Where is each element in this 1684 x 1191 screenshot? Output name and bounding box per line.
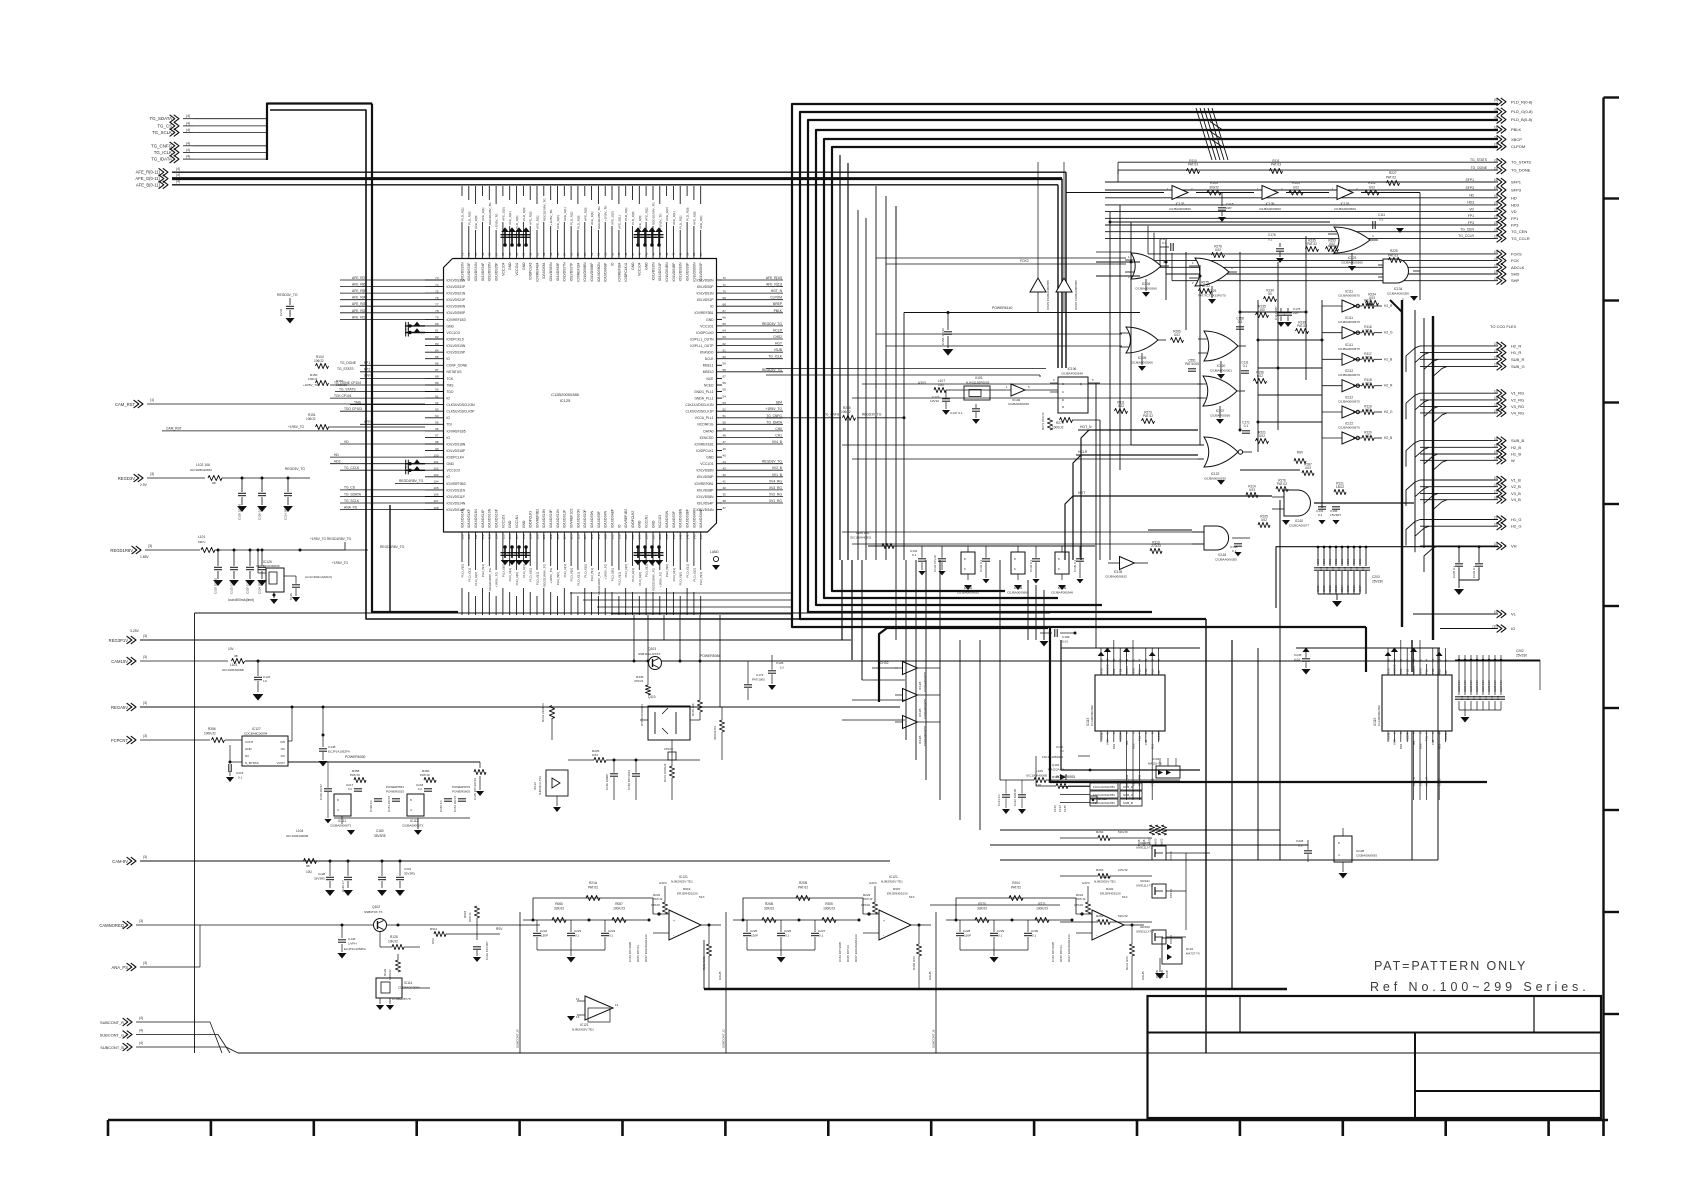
svg-text:IO/VREF1B3: IO/VREF1B3 [447, 318, 466, 322]
svg-text:2.9V: 2.9V [140, 483, 148, 487]
pin 85 IC125 left [425, 355, 450, 361]
svg-text:MA727-TX: MA727-TX [1186, 952, 1200, 956]
svg-text:A3V3: A3V3 [659, 881, 667, 885]
svg-text:CAM_RST: CAM_RST [166, 427, 182, 431]
op-amp IC121 spare [567, 996, 619, 1032]
svg-text:CLK5/LVDSCLK5P: CLK5/LVDSCLK5P [447, 410, 476, 414]
pin 66 IC125 top [501, 186, 505, 276]
svg-text:IO/LVDS34N: IO/LVDS34N [474, 262, 478, 281]
svg-text:10U: 10U [1334, 559, 1338, 564]
or-gate IC123 [1328, 227, 1378, 271]
svg-text:R263: R263 [1096, 868, 1104, 872]
svg-text:80: 80 [435, 322, 439, 326]
svg-text:C142 1M41B: C142 1M41B [1013, 789, 1017, 806]
buffer IC111 [1322, 316, 1393, 339]
capacitor C153 16V10 [941, 313, 953, 356]
resistor R225 0/J3 [568, 749, 700, 763]
svg-text:R264: R264 [1096, 914, 1104, 918]
buffer IC111 [1322, 290, 1393, 313]
connector V2_RG [1420, 396, 1524, 404]
pin 52 IC125 right [710, 302, 783, 308]
pin 93 IC125 left [425, 407, 475, 413]
wire trunk x366 [270, 110, 1206, 619]
svg-text:IO: IO [447, 436, 451, 440]
svg-text:NJM2902V-TE1: NJM2902V-TE1 [671, 880, 693, 884]
and-gate IC118 [1192, 526, 1250, 562]
wire vertical x1280 [1279, 500, 1281, 860]
transistor pair Q110 [640, 695, 700, 740]
svg-text:PAT/J2: PAT/J2 [1143, 414, 1153, 418]
capacitor C132 16V10 [933, 546, 946, 575]
part C111b 0.1 [1241, 361, 1249, 374]
pin 142 IC125 bottom [686, 508, 690, 615]
svg-text:IO/LVDS63P: IO/LVDS63P [556, 262, 560, 281]
svg-text:0.1: 0.1 [1268, 238, 1273, 242]
svg-text:+1R5V_TG: +1R5V_TG [549, 567, 553, 583]
connector TG_STATS [1118, 158, 1531, 174]
pin 39 IC125 top [685, 186, 689, 281]
pin 50 IC125 right [706, 316, 726, 322]
svg-text:IO/LVDS93N: IO/LVDS93N [679, 262, 683, 281]
svg-text:IO/LVDS4P: IO/LVDS4P [697, 501, 715, 505]
svg-text:IC112: IC112 [410, 819, 418, 823]
svg-text:42: 42 [665, 252, 669, 256]
connector VD [1105, 207, 1517, 215]
svg-text:1/VFH: 1/VFH [348, 942, 357, 946]
pin 76 IC125 left [425, 296, 466, 302]
svg-text:NJM431U-TE1: NJM431U-TE1 [538, 775, 542, 795]
svg-text:IO/LVDS6BN: IO/LVDS6BN [583, 262, 587, 282]
pin 110 IC125 bottom [467, 508, 471, 615]
svg-text:TL1: TL1 [1425, 736, 1429, 741]
svg-text:R915 PAT/J3: R915 PAT/J3 [636, 945, 640, 962]
svg-text:Iccnt=300mA(MAX): Iccnt=300mA(MAX) [305, 575, 332, 579]
svg-text:H2_G: H2_G [1511, 524, 1521, 529]
svg-text:53: 53 [590, 252, 594, 256]
svg-text:33K/J3: 33K/J3 [977, 907, 987, 911]
svg-text:141: 141 [679, 534, 683, 539]
svg-text:(3): (3) [143, 961, 147, 965]
svg-text:VCC1O1: VCC1O1 [700, 462, 713, 466]
svg-text:AFE_R(0-11): AFE_R(0-11) [136, 170, 161, 175]
wire trunk bus [792, 104, 1498, 627]
svg-text:TG_DONE: TG_DONE [1471, 166, 1488, 170]
pin 83 IC125 left [425, 342, 466, 348]
resistor R273 PAT/J3 [1041, 412, 1053, 430]
pin 36 IC125 right [686, 407, 783, 413]
svg-text:F1K1H1050003: F1K1H1050003 [1042, 755, 1063, 759]
svg-text:46: 46 [723, 447, 727, 451]
or-gate IC107 [1197, 376, 1245, 424]
svg-text:132: 132 [617, 534, 621, 539]
svg-text:L102 10U: L102 10U [196, 463, 211, 467]
connector ADCLK [1160, 239, 1525, 271]
pin 118 IC125 bottom [522, 520, 526, 615]
svg-text:GND: GND [447, 462, 455, 466]
svg-text:C150 PAT/3591: C150 PAT/3591 [627, 769, 631, 790]
resistor R235 [1306, 239, 1319, 252]
svg-text:PLD_B[1]: PLD_B[1] [481, 564, 485, 577]
node CHS2 buffers [872, 661, 898, 668]
svg-text:C0JBA0000669: C0JBA0000669 [1259, 207, 1281, 211]
connector TG_ICLK [154, 148, 267, 156]
svg-text:IC12B: IC12B [918, 682, 922, 690]
svg-text:(4): (4) [139, 1029, 143, 1033]
svg-text:PLD_R[0]: PLD_R[0] [570, 568, 574, 582]
svg-text:C227: C227 [818, 929, 826, 933]
svg-text:PLD_B[1]: PLD_B[1] [699, 572, 703, 585]
pin 130 IC125 bottom [604, 510, 608, 615]
svg-text:TCK: TCK [447, 377, 454, 381]
svg-text:MDB2B: MDB2B [1393, 664, 1397, 674]
svg-text:IC110: IC110 [1295, 519, 1303, 523]
resistor R279 1000/J2 [1052, 417, 1100, 429]
svg-text:H1_R: H1_R [1511, 350, 1521, 355]
svg-text:PAT/J2: PAT/J2 [1076, 897, 1086, 901]
connector FCKS [1148, 226, 1522, 258]
svg-text:TG_STATS: TG_STATS [1511, 160, 1531, 165]
svg-text:C163 PAT/1005: C163 PAT/1005 [838, 941, 842, 962]
svg-text:14: 14 [615, 1003, 619, 1007]
svg-text:IC105 C0JBA0000655: IC105 C0JBA0000655 [1046, 280, 1050, 310]
svg-text:PAT/J2: PAT/J2 [588, 886, 598, 890]
svg-text:14: 14 [1425, 659, 1429, 662]
svg-text:0/J2: 0/J2 [1261, 518, 1267, 522]
svg-text:TG_STATS: TG_STATS [1470, 158, 1488, 162]
svg-text:HCLR: HCLR [773, 329, 783, 333]
transistor Q103 SSB116A-RSTX [633, 647, 682, 670]
diode D101 MA727-TX [1155, 938, 1200, 978]
svg-text:C147 0.1: C147 0.1 [950, 411, 963, 415]
svg-text:TDO: TDO [447, 390, 454, 394]
svg-text:TG_ICLK: TG_ICLK [768, 355, 783, 359]
pin 61 IC125 top [535, 186, 539, 282]
svg-text:AFE_R[0]: AFE_R[0] [692, 211, 696, 225]
svg-text:SUBCONT_G: SUBCONT_G [100, 1033, 124, 1038]
svg-text:51X: 51X [699, 895, 705, 899]
svg-text:FP3: FP3 [1468, 221, 1474, 225]
pin 26 IC125 right [697, 473, 783, 479]
svg-text:C128: C128 [318, 872, 326, 876]
svg-text:REGD3V_TG: REGD3V_TG [762, 322, 782, 326]
connector CAM-9V [112, 829, 890, 874]
svg-text:GND: GND [645, 262, 649, 270]
capacitor C148 ECJP1A105ZFA [319, 707, 350, 767]
svg-text:TG_SCLK: TG_SCLK [344, 499, 360, 503]
svg-text:84: 84 [435, 348, 439, 352]
svg-text:PLD_B[1]: PLD_B[1] [536, 572, 540, 585]
svg-text:A3V3: A3V3 [1082, 881, 1090, 885]
svg-text:NC: NC [1157, 670, 1161, 674]
svg-text:D103: D103 [1152, 757, 1160, 761]
svg-text:CHS2: CHS2 [880, 661, 889, 665]
svg-text:GNDA_PLL1: GNDA_PLL1 [694, 397, 713, 401]
svg-text:AFE_R[0]: AFE_R[0] [529, 211, 533, 225]
svg-text:R262: R262 [1096, 830, 1104, 834]
svg-text:PLD_R[0]: PLD_R[0] [515, 572, 519, 586]
svg-text:133: 133 [624, 534, 628, 539]
pin 53 IC125 right [697, 296, 783, 302]
svg-text:0/J2: 0/J2 [1293, 186, 1299, 190]
svg-text:91: 91 [435, 394, 439, 398]
resistors R262-R264 net to CP [1186, 853, 1210, 930]
pin 69 IC125 top [481, 186, 485, 281]
svg-text:86: 86 [435, 362, 439, 366]
svg-text:PAT/J3: PAT/J3 [1388, 254, 1398, 258]
svg-text:IO/LVDS33N: IO/LVDS33N [460, 262, 464, 281]
svg-text:C146: C146 [348, 937, 356, 941]
svg-text:0/J3: 0/J3 [1305, 466, 1311, 470]
svg-text:F1K1H1044A7B3: F1K1H1044A7B3 [1093, 801, 1115, 805]
connector CAM_RST [115, 398, 425, 408]
svg-text:50: 50 [610, 252, 614, 256]
svg-text:IC116: IC116 [533, 782, 537, 790]
svg-text:C192: C192 [1328, 585, 1332, 592]
svg-text:C1A900002099: C1A900002099 [1377, 705, 1381, 726]
svg-text:C194: C194 [1340, 585, 1344, 592]
pin 28 IC125 right [700, 460, 783, 466]
connector FCPCNT [111, 727, 242, 744]
svg-text:68: 68 [723, 302, 727, 306]
svg-text:CP108: CP108 [664, 747, 673, 751]
svg-text:35V3R5: 35V3R5 [404, 872, 415, 876]
svg-text:PAT/J2: PAT/J2 [1011, 886, 1021, 890]
svg-text:IO/LVDS64: IO/LVDS64 [542, 262, 546, 279]
inverter IC103 [1332, 186, 1358, 212]
svg-text:R26B: R26B [765, 902, 773, 906]
pin 34 IC125 right [697, 420, 783, 426]
svg-text:PBLK: PBLK [774, 309, 783, 313]
pin 32 IC125 right [700, 433, 783, 439]
svg-text:PLD_B[0]: PLD_B[0] [611, 568, 615, 581]
connector SUBCONT_B [100, 1041, 238, 1053]
svg-text:10U: 10U [1340, 559, 1344, 564]
svg-text:37: 37 [723, 506, 727, 510]
svg-text:62: 62 [529, 252, 533, 256]
diode Q192 MA152A-TX [1036, 745, 1091, 789]
svg-text:R231 0/J3: R231 0/J3 [1125, 956, 1129, 970]
svg-text:51K/J2: 51K/J2 [1118, 914, 1128, 918]
pin 137 IC125 bottom [651, 520, 655, 615]
svg-text:C0JBA0000675: C0JBA0000675 [1338, 426, 1360, 430]
svg-text:AFE_G[0]: AFE_G[0] [501, 207, 505, 221]
svg-text:49: 49 [617, 252, 621, 256]
svg-text:13: 13 [576, 1015, 580, 1019]
svg-text:64: 64 [515, 252, 519, 256]
regulator IC127 CDCBA8C00094 [226, 707, 480, 782]
pin 23 IC125 right [697, 493, 783, 499]
connector TG_CEN [1105, 228, 1527, 236]
inverter IC105 [1257, 186, 1283, 212]
svg-text:1000/J2: 1000/J2 [1052, 426, 1064, 430]
pin 59 IC125 top [549, 186, 553, 281]
resistor R111 [1270, 159, 1283, 185]
svg-text:VCC1N1: VCC1N1 [645, 515, 649, 528]
svg-text:C118 10V47: C118 10V47 [319, 784, 323, 800]
svg-text:TG_CNFG: TG_CNFG [766, 414, 782, 418]
svg-text:83: 83 [435, 342, 439, 346]
part C158 0.1 [1236, 317, 1244, 330]
svg-text:CDCBA8C00094: CDCBA8C00094 [244, 732, 268, 736]
svg-text:L104: L104 [296, 829, 304, 833]
svg-text:SUBCONT_B: SUBCONT_B [932, 1030, 936, 1048]
note PAT=PATTERN ONLY [1370, 959, 1590, 994]
svg-text:AFE_R[0]: AFE_R[0] [638, 215, 642, 229]
svg-text:AFE_R[6]: AFE_R[6] [352, 283, 366, 287]
pin 111 IC125 bottom [474, 509, 478, 615]
svg-text:VCC1O4: VCC1O4 [638, 262, 642, 275]
svg-text:39: 39 [685, 252, 689, 256]
svg-text:(9): (9) [1494, 98, 1498, 102]
pin 53 IC125 top [590, 186, 594, 282]
svg-text:+1R5V_TG: +1R5V_TG [765, 407, 782, 411]
svg-text:53: 53 [723, 401, 727, 405]
svg-text:REGD1R8V_TG: REGD1R8V_TG [542, 563, 546, 586]
svg-text:C215: C215 [236, 771, 244, 775]
capacitor C131 0.1 / C156 15V4R7 [1316, 507, 1341, 525]
svg-text:124: 124 [563, 534, 567, 539]
svg-text:TDO CP103: TDO CP103 [344, 407, 362, 411]
resistor R128 10K/J2 [380, 932, 420, 950]
or-gate IC105 [1120, 327, 1166, 371]
svg-text:+1R5V_TG: +1R5V_TG [303, 383, 319, 387]
svg-text:HSB: HSB [1386, 668, 1390, 674]
svg-text:C0JBA0000675: C0JBA0000675 [1338, 400, 1360, 404]
node TDO CP103 [340, 407, 425, 411]
svg-text:AFE_R[1]: AFE_R[1] [590, 211, 594, 225]
resistor R105 [1289, 181, 1303, 195]
note POWER6140 [903, 306, 1141, 419]
capacitor C109 0.1 [1160, 237, 1173, 251]
svg-text:C234: C234 [279, 308, 283, 316]
shunt IC116 NJM431U-TE1 [533, 770, 568, 812]
pin 89 IC125 left [425, 381, 454, 387]
capacitor C176 0.1 [1268, 233, 1284, 263]
ic IC128 C0JBA0000655 [1334, 828, 1377, 879]
svg-text:+: + [673, 919, 675, 923]
pin 38 IC125 right [694, 394, 726, 400]
op-amp IC121 stage R [523, 875, 722, 988]
resistor R230 [1296, 321, 1309, 334]
bus AFE_G(0-11) [135, 173, 1062, 368]
svg-text:IO/LVDS3IN: IO/LVDS3IN [651, 262, 655, 281]
svg-text:119: 119 [529, 534, 533, 539]
svg-text:H1_B: H1_B [1511, 452, 1521, 457]
wire below-IC to trunk nest [570, 593, 792, 614]
svg-text:R915 PAT/J3: R915 PAT/J3 [1059, 945, 1063, 962]
capacitor C131 0.1 [910, 546, 926, 575]
pin 97 IC125 left [425, 434, 450, 440]
svg-text:58: 58 [556, 252, 560, 256]
svg-text:IO/LVDS19P: IO/LVDS19P [447, 351, 466, 355]
svg-text:PLD_G[0]: PLD_G[0] [583, 564, 587, 578]
capacitor C141 C142 [997, 780, 1026, 814]
svg-text:100K/J3: 100K/J3 [823, 907, 835, 911]
buffer IC102 xtal [1006, 384, 1058, 406]
svg-text:REGD1R8V_TG: REGD1R8V_TG [542, 198, 546, 221]
capacitor C150 PAT/3591 [627, 759, 640, 801]
ic IC102 [957, 546, 990, 595]
svg-text:L105 10U: L105 10U [856, 531, 869, 535]
svg-text:IO/LVDS6BP: IO/LVDS6BP [590, 262, 594, 282]
svg-text:55: 55 [723, 388, 727, 392]
svg-text:111: 111 [474, 534, 478, 539]
svg-text:AFE_G[1]: AFE_G[1] [563, 207, 567, 221]
svg-text:C132 16V10: C132 16V10 [933, 555, 937, 572]
svg-text:27K/J2: 27K/J2 [1118, 868, 1128, 872]
svg-text:GND: GND [447, 324, 455, 328]
svg-text:TL1: TL1 [1138, 736, 1142, 741]
svg-text:C153 16V10: C153 16V10 [941, 328, 945, 345]
pin 42 IC125 right [703, 368, 783, 374]
svg-text:VCC1O3: VCC1O3 [447, 331, 460, 335]
svg-text:PLD_R[0]: PLD_R[0] [467, 211, 471, 225]
pin 63 IC125 top [522, 186, 526, 270]
svg-text:(3): (3) [139, 919, 143, 923]
svg-text:MSEL0: MSEL0 [703, 370, 714, 374]
wire trunk x373 [372, 104, 458, 613]
svg-text:BREP: BREP [773, 302, 783, 306]
svg-text:TB2: TB2 [1406, 668, 1410, 674]
svg-text:SFP3: SFP3 [1511, 188, 1522, 193]
svg-text:GR101: GR101 [1140, 879, 1150, 883]
svg-text:H1_G: H1_G [1511, 517, 1521, 522]
pin 31 IC125 right [694, 440, 783, 446]
svg-text:C203: C203 [1372, 575, 1380, 579]
svg-text:UN9212J-TU: UN9212J-TU [1136, 930, 1154, 934]
pin 75 IC125 left [425, 289, 466, 295]
svg-text:IC12B: IC12B [918, 709, 922, 717]
svg-text:C185 10V: C185 10V [1487, 680, 1491, 692]
svg-text:1B/J2: 1B/J2 [1336, 485, 1344, 489]
svg-text:W: W [1511, 458, 1515, 463]
svg-text:(3): (3) [143, 634, 147, 638]
flip-flop IC106 [1050, 367, 1100, 413]
resistor R276 [1212, 245, 1225, 258]
svg-text:0.1: 0.1 [609, 934, 614, 938]
connector V4_B [1420, 496, 1521, 504]
connector HD [1105, 194, 1517, 202]
svg-text:1U: 1U [348, 787, 352, 791]
svg-text:Q110: Q110 [648, 695, 656, 699]
svg-text:PAT=PATTERN ONLY: PAT=PATTERN ONLY [1374, 959, 1527, 973]
capacitor C148 0.1 [1230, 544, 1242, 557]
svg-text:0.1: 0.1 [1379, 218, 1384, 222]
svg-text:IO/LVDS35P: IO/LVDS35P [495, 262, 499, 281]
svg-text:126: 126 [576, 534, 580, 539]
svg-text:C139 1000P: C139 1000P [605, 774, 609, 790]
connector V3_RG [1420, 403, 1524, 411]
svg-text:H2_B: H2_B [1384, 436, 1393, 440]
svg-text:PLD_B[1]: PLD_B[1] [645, 564, 649, 577]
wire HCLR corner [1073, 455, 1198, 560]
pin 138 IC125 bottom [658, 515, 662, 615]
ic IC106 [1051, 546, 1084, 595]
svg-text:(4): (4) [139, 1016, 143, 1020]
svg-text:TG_IDATA: TG_IDATA [151, 157, 172, 162]
svg-text:TG_STATS: TG_STATS [337, 367, 354, 371]
svg-text:HCLR: HCLR [1078, 450, 1088, 454]
or-gate IC104 [1125, 253, 1169, 297]
svg-text:76: 76 [435, 296, 439, 300]
node SFP2 [360, 420, 425, 424]
svg-text:59: 59 [723, 362, 727, 366]
svg-text:38: 38 [692, 252, 696, 256]
resistor R129 1000/J2 [383, 954, 401, 980]
svg-text:HD: HD [1469, 194, 1474, 198]
pin 140 IC125 bottom [672, 510, 676, 615]
svg-text:C172: C172 [756, 673, 764, 677]
